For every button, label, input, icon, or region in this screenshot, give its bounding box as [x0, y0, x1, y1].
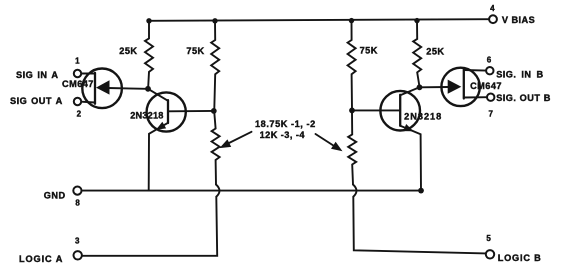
- svg-text:SIG OUT A: SIG OUT A: [10, 96, 63, 106]
- svg-text:SIG IN A: SIG IN A: [16, 70, 58, 80]
- svg-text:2N3218: 2N3218: [404, 111, 442, 121]
- svg-text:1: 1: [75, 56, 80, 65]
- svg-text:V BIAS: V BIAS: [502, 15, 535, 25]
- svg-text:2N3218: 2N3218: [130, 111, 163, 121]
- svg-text:CM647: CM647: [62, 79, 94, 89]
- svg-text:4: 4: [490, 4, 495, 13]
- svg-text:SIG. OUT B: SIG. OUT B: [496, 93, 551, 103]
- svg-text:7: 7: [488, 110, 493, 119]
- svg-text:LOGIC A: LOGIC A: [19, 254, 63, 264]
- svg-text:5: 5: [486, 234, 491, 243]
- svg-text:18.75K -1, -2: 18.75K -1, -2: [255, 119, 316, 129]
- svg-text:25K: 25K: [119, 46, 137, 56]
- svg-text:CM647: CM647: [470, 81, 502, 91]
- svg-text:8: 8: [75, 198, 80, 207]
- svg-text:3: 3: [75, 236, 80, 245]
- svg-text:LOGIC B: LOGIC B: [498, 253, 542, 263]
- svg-text:12K -3, -4: 12K -3, -4: [260, 130, 306, 140]
- svg-text:2: 2: [77, 109, 82, 118]
- svg-text:75K: 75K: [360, 46, 378, 56]
- svg-text:SIG. IN B: SIG. IN B: [496, 70, 543, 80]
- svg-text:25K: 25K: [426, 47, 444, 57]
- svg-text:6: 6: [487, 55, 492, 64]
- svg-text:GND: GND: [44, 191, 66, 201]
- svg-text:75K: 75K: [186, 46, 204, 56]
